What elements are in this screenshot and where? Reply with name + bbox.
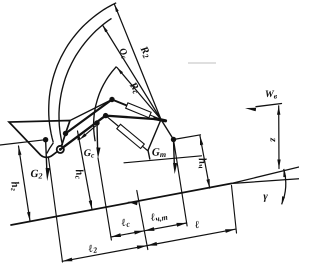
tilt link upper (70, 100, 112, 121)
bucket outline (9, 121, 70, 158)
slope extension line (231, 167, 299, 184)
tilt link lower (66, 100, 113, 134)
bucket pivot joint (43, 137, 48, 142)
svg-text:Gс: Gс (84, 148, 95, 160)
arc Rc trajectory (94, 67, 117, 142)
ground line (11, 184, 231, 226)
dimension hc (78, 131, 93, 210)
dimension lc (111, 231, 144, 237)
lower hydraulic cylinder (106, 116, 119, 127)
arc R2 trajectory (49, 3, 117, 143)
force WB (256, 104, 282, 107)
link direction arrow (83, 126, 96, 137)
pivot knot at C (155, 119, 166, 121)
upper hydraulic cylinder (112, 100, 127, 106)
horizontal reference line (231, 179, 299, 184)
frame rear line (174, 135, 201, 140)
bucket hinge ring (57, 146, 64, 153)
svg-text:γ: γ (263, 191, 268, 203)
extension mid (137, 191, 148, 250)
dimension hy (200, 136, 210, 188)
faint smudge (188, 62, 216, 64)
force G2 (46, 140, 47, 169)
bucket edge level line (0, 140, 46, 145)
bucket upper joint (63, 131, 68, 136)
force Gm (173, 140, 176, 165)
joint top (109, 97, 114, 102)
boom to frame (106, 116, 161, 120)
arc Oc trajectory (59, 18, 112, 145)
radius line Rc (117, 68, 161, 120)
svg-text:z: z (268, 137, 279, 142)
frame top edge (161, 120, 174, 140)
extension below Gm (174, 140, 188, 226)
dimension l2 (62, 246, 147, 262)
extension below Gc (98, 158, 111, 240)
dimension lchm (144, 223, 186, 231)
joint A (94, 120, 99, 125)
force Gc (96, 123, 99, 149)
joint B (103, 113, 108, 118)
angle gamma arc (282, 169, 286, 205)
dimension hr (19, 146, 31, 221)
slope arrow on ground line (128, 202, 138, 206)
radius line Oc (103, 25, 162, 120)
dimension z (278, 106, 280, 169)
extension below G2 (49, 158, 63, 262)
chassis bottom line (124, 156, 202, 163)
frame joint Gm (171, 137, 176, 142)
frame front edge (148, 120, 161, 151)
dimension l (147, 229, 235, 245)
extension below fan point (232, 186, 237, 234)
lower link (60, 116, 105, 150)
radius line R2 (115, 5, 162, 120)
svg-text:Wв: Wв (265, 89, 278, 101)
